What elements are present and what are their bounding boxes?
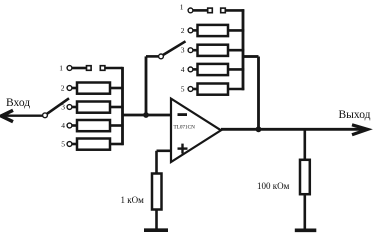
- svg-text:2: 2: [61, 84, 65, 93]
- svg-text:4: 4: [181, 65, 185, 74]
- svg-text:Вход: Вход: [6, 97, 30, 109]
- svg-text:3: 3: [61, 103, 65, 112]
- svg-text:4: 4: [61, 121, 65, 130]
- svg-text:100 кОм: 100 кОм: [257, 181, 290, 191]
- svg-text:5: 5: [181, 85, 185, 94]
- svg-text:1 кОм: 1 кОм: [121, 195, 145, 205]
- svg-text:Выход: Выход: [339, 109, 371, 121]
- svg-text:1: 1: [59, 64, 63, 73]
- svg-text:1: 1: [180, 3, 184, 12]
- svg-text:3: 3: [181, 46, 185, 55]
- svg-text:5: 5: [61, 140, 65, 149]
- svg-text:TL071CN: TL071CN: [174, 125, 196, 131]
- svg-text:2: 2: [181, 26, 185, 35]
